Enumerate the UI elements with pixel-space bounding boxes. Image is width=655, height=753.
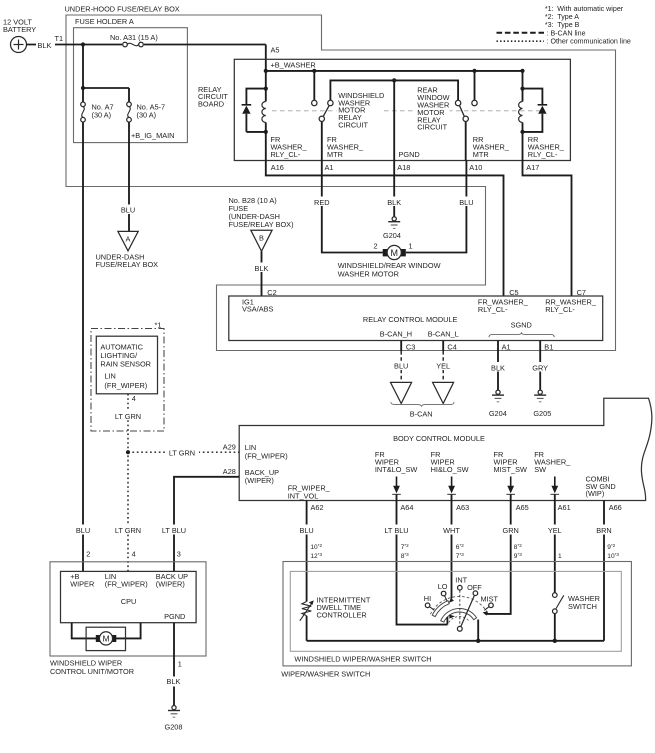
svg-text:PGND: PGND [399, 150, 420, 159]
svg-text:M: M [390, 248, 398, 258]
wire PGND (A18) [393, 80, 395, 160]
svg-text:WHT: WHT [443, 526, 460, 535]
B-CAN connector triangle (C4) [433, 382, 454, 403]
CPU box [61, 571, 197, 622]
node diode bottom RR [520, 130, 524, 134]
svg-text:GRN: GRN [503, 526, 519, 535]
svg-text:9*3: 9*3 [514, 552, 522, 560]
svg-text:9*2: 9*2 [607, 543, 615, 551]
svg-text:: B-CAN line: : B-CAN line [547, 29, 586, 37]
node on main feed [81, 42, 85, 46]
wire B1 to G205 (GRY) [530, 341, 552, 391]
node diode top FR [264, 87, 268, 91]
svg-text:(30 A): (30 A) [137, 110, 157, 119]
fuse No. A7 (30 A) [81, 102, 114, 122]
svg-text:10*3: 10*3 [607, 552, 619, 560]
svg-text:(30 A): (30 A) [92, 110, 112, 119]
svg-text:LT GRN: LT GRN [115, 412, 141, 421]
fuse No. A5-7 (30 A) [127, 102, 175, 140]
svg-text:(WIPER): (WIPER) [245, 476, 274, 485]
wire A10 to washer motor (BLU) [406, 161, 477, 253]
relay board internal labels [271, 86, 565, 159]
svg-text:BLK: BLK [167, 677, 181, 686]
INT dashed link [459, 590, 461, 626]
svg-text:7*2: 7*2 [401, 543, 409, 551]
relay board pin labels [271, 163, 540, 172]
B-CAN brace [391, 402, 454, 418]
wire LIN branch to BCM A29 (LT GRN, dotted) [128, 442, 239, 457]
fuse No. A31 (15 A) [110, 33, 158, 49]
svg-text:G208: G208 [165, 722, 183, 731]
wire A66 (BRN) to switch ground bus [594, 501, 620, 641]
svg-text:No. A31 (15 A): No. A31 (15 A) [110, 33, 158, 42]
under-hood fuse/relay box [65, 5, 616, 351]
contact ticks [430, 607, 435, 611]
svg-text:WINDSHIELD WIPER/WASHER SWITCH: WINDSHIELD WIPER/WASHER SWITCH [294, 655, 431, 664]
svg-text:WIPER/WASHER SWITCH: WIPER/WASHER SWITCH [281, 669, 370, 678]
svg-text:8*2: 8*2 [514, 543, 522, 551]
ground G204 (motor) [383, 217, 401, 241]
svg-text:B1: B1 [544, 342, 553, 351]
svg-text:G204: G204 [383, 231, 401, 240]
wire fuse A5-7 to under-dash box (BLU) [118, 122, 139, 231]
wire A18 to G204 (BLK) [384, 161, 405, 217]
BCM pin A28 wire to wiper unit pin 3 (LT BLU) [174, 467, 239, 571]
ground G208 [165, 706, 183, 732]
relay coil RR washer [519, 71, 523, 161]
svg-text:C3: C3 [406, 342, 415, 351]
relay circuit board box [198, 59, 570, 160]
node bus/FR contact [312, 69, 316, 73]
svg-text:CIRCUIT: CIRCUIT [338, 121, 368, 130]
svg-text:+B_IG_MAIN: +B_IG_MAIN [131, 131, 174, 140]
svg-text:With automatic wiper: With automatic wiper [557, 5, 623, 13]
wire A1 to washer motor (RED) [311, 161, 383, 253]
svg-text:A18: A18 [397, 163, 410, 172]
svg-text:A: A [126, 235, 131, 244]
svg-text:A29: A29 [223, 442, 236, 451]
relay module bottom pin labels [406, 342, 553, 351]
svg-text:1: 1 [408, 242, 412, 251]
svg-text:VSA/ABS: VSA/ABS [242, 305, 274, 314]
wire band to bus [477, 620, 479, 641]
svg-text:B: B [259, 233, 264, 242]
connector triangle A (to under-dash fuse/relay box) [96, 231, 159, 269]
wire PGND to G208 (BLK) [164, 623, 185, 706]
svg-text:SGND: SGND [511, 320, 532, 329]
automatic lighting/rain sensor (with automatic wiper) [91, 321, 164, 431]
svg-text:B-CAN_L: B-CAN_L [428, 329, 459, 338]
svg-text:MTR: MTR [327, 150, 343, 159]
svg-text:INT&LO_SW: INT&LO_SW [375, 465, 418, 474]
svg-text:GRY: GRY [532, 364, 548, 373]
ground G205 [533, 390, 551, 418]
wire battery to fuse box (BLK) [27, 34, 266, 50]
svg-text:: Other communication line: : Other communication line [547, 38, 631, 46]
diode RR (clamp) [523, 89, 548, 132]
wire A16 to C5 [266, 161, 504, 297]
svg-text:A64: A64 [400, 503, 413, 512]
svg-text:RLY_CL-: RLY_CL- [528, 150, 558, 159]
relay contact FR washer motor [312, 71, 459, 161]
svg-text:BLK: BLK [38, 41, 52, 50]
B-CAN connector triangle (C3) [391, 382, 412, 403]
svg-text:UNDER-HOOD FUSE/RELAY BOX: UNDER-HOOD FUSE/RELAY BOX [65, 5, 180, 14]
svg-text:4: 4 [132, 550, 136, 559]
wire A65 (GRN) [487, 494, 522, 614]
svg-text:T1: T1 [55, 34, 64, 43]
svg-text:YEL: YEL [436, 361, 450, 370]
wire C4 B-CAN (YEL, dashed) [433, 341, 455, 383]
svg-text:BLK: BLK [491, 364, 505, 373]
wiper unit pin numbers [86, 550, 181, 559]
svg-text:BLU: BLU [121, 206, 135, 215]
svg-text:1: 1 [558, 553, 562, 560]
svg-text:INT: INT [455, 575, 467, 584]
svg-text:FUSE HOLDER A: FUSE HOLDER A [75, 17, 134, 26]
svg-text:8*3: 8*3 [401, 552, 409, 560]
wire rain sensor LIN (LT GRN, dotted) [111, 394, 145, 572]
diode FR (clamp) [242, 89, 266, 132]
small dashed arc [449, 617, 470, 623]
windshield/rear window washer motor [338, 242, 441, 279]
svg-text:LT GRN: LT GRN [115, 526, 141, 535]
svg-text:LIN: LIN [104, 372, 115, 381]
wiper/washer switch outer box [281, 562, 631, 679]
svg-text:YEL: YEL [548, 526, 562, 535]
svg-text:BLU: BLU [299, 526, 313, 535]
svg-text:BLU: BLU [459, 198, 473, 207]
svg-text:2: 2 [86, 550, 90, 559]
svg-text:12*3: 12*3 [310, 552, 322, 560]
fuse holder A box [74, 17, 188, 143]
svg-text:BRN: BRN [596, 526, 612, 535]
node at fuse branch [81, 86, 85, 90]
svg-text:A65: A65 [516, 503, 529, 512]
svg-text:CONTROL UNIT/MOTOR: CONTROL UNIT/MOTOR [50, 667, 134, 676]
svg-text:CONTROLLER: CONTROLLER [317, 611, 367, 620]
svg-text:LO: LO [438, 582, 448, 591]
svg-text:(FR_WIPER): (FR_WIPER) [104, 381, 147, 390]
ground G204 [489, 390, 507, 418]
dashed selector arc [430, 596, 487, 614]
battery B1 (12 volt) [3, 17, 36, 52]
svg-text:M: M [102, 634, 109, 644]
svg-text:MIST: MIST [481, 594, 499, 603]
svg-text:RAIN SENSOR: RAIN SENSOR [100, 359, 151, 368]
svg-text:PGND: PGND [164, 612, 185, 621]
node LIN junction [126, 450, 130, 454]
svg-text:A28: A28 [223, 467, 236, 476]
wire labels into wiper unit [73, 525, 190, 536]
svg-text:LT GRN: LT GRN [169, 449, 195, 458]
svg-text:A16: A16 [271, 163, 284, 172]
svg-text:INT_VOL: INT_VOL [288, 491, 319, 500]
svg-text:(WIPER): (WIPER) [156, 580, 185, 589]
svg-text:A17: A17 [526, 163, 539, 172]
svg-text:MIST_SW: MIST_SW [494, 465, 528, 474]
mechanical link dashed line [272, 110, 541, 112]
node A5/bus [264, 69, 268, 73]
svg-text:G204: G204 [489, 409, 507, 418]
windshield wiper control unit/motor box [50, 562, 206, 676]
svg-text:A66: A66 [609, 503, 622, 512]
svg-text:A63: A63 [456, 503, 469, 512]
svg-text:7*3: 7*3 [456, 552, 464, 560]
svg-text:A10: A10 [469, 163, 482, 172]
BCM output arrows A64 A63 A65 A61 [392, 477, 559, 495]
svg-text:BATTERY: BATTERY [3, 25, 36, 34]
svg-text:BOARD: BOARD [198, 100, 224, 109]
svg-text:A1: A1 [502, 342, 511, 351]
inner contact band [441, 609, 477, 623]
svg-text:BLU: BLU [394, 361, 408, 370]
wire to fuses A7 / A5-7 [83, 45, 129, 103]
svg-text:BLK: BLK [255, 264, 269, 273]
svg-text:MTR: MTR [473, 150, 489, 159]
intermittent dwell time controller (variable resistor) [300, 595, 371, 640]
svg-text:RED: RED [314, 198, 330, 207]
wire C3 B-CAN (BLU, dashed) [391, 341, 413, 383]
svg-text:CPU: CPU [121, 597, 137, 606]
node PGND branch [392, 78, 396, 82]
svg-text:6*2: 6*2 [456, 543, 464, 551]
svg-text:*3:: *3: [545, 21, 554, 29]
wire B28 to C2 (BLK) [251, 251, 277, 296]
svg-text:Type B: Type B [557, 21, 579, 29]
LT BLU arrow to band [447, 615, 455, 625]
relay coil FR washer [262, 71, 266, 161]
svg-text:C4: C4 [447, 342, 456, 351]
svg-text:10*2: 10*2 [310, 543, 322, 551]
wiper rotary switch [424, 575, 499, 640]
svg-text:LT BLU: LT BLU [384, 526, 408, 535]
svg-text:BLK: BLK [387, 198, 401, 207]
svg-text:A62: A62 [311, 503, 324, 512]
svg-text:A1: A1 [325, 163, 334, 172]
wire A17 to C7 [523, 161, 572, 297]
node diode top RR [520, 87, 524, 91]
windshield wiper/washer switch box [290, 571, 621, 663]
svg-text:2: 2 [373, 242, 377, 251]
node diode bottom FR [264, 130, 268, 134]
svg-text:RLY_CL-: RLY_CL- [545, 305, 575, 314]
svg-text:(WIP): (WIP) [586, 489, 605, 498]
svg-text:A5: A5 [271, 46, 280, 55]
svg-text:(FR_WIPER): (FR_WIPER) [245, 451, 288, 460]
legend notes [497, 5, 631, 45]
wire A1 to G204 (BLK) [488, 341, 509, 391]
svg-text:A61: A61 [558, 503, 571, 512]
wire A62 (BLU) to dwell controller [296, 501, 323, 602]
svg-text:1: 1 [178, 660, 182, 669]
WHT arrow to LO contact [449, 598, 454, 603]
svg-text:(FR_WIPER): (FR_WIPER) [105, 580, 148, 589]
svg-text:BLU: BLU [76, 526, 90, 535]
svg-text:HI: HI [424, 594, 431, 603]
+B_WASHER bus [266, 61, 523, 71]
washer switch [553, 593, 600, 641]
wire A61 (YEL) [544, 494, 566, 592]
svg-text:RLY_CL-: RLY_CL- [271, 150, 301, 159]
svg-text:HI&LO_SW: HI&LO_SW [431, 465, 469, 474]
wire fuse A7 to wiper control unit (BLU) [82, 122, 84, 571]
switch ground bus [307, 640, 604, 642]
svg-text:RLY_CL-: RLY_CL- [478, 305, 508, 314]
svg-text:SW: SW [534, 465, 546, 474]
svg-text:3: 3 [177, 550, 181, 559]
svg-text:RELAY CONTROL MODULE: RELAY CONTROL MODULE [363, 315, 458, 324]
svg-text:WIPER: WIPER [70, 580, 94, 589]
node bus/RR contact [472, 69, 476, 73]
node bus/rotary [476, 639, 480, 643]
GRN arrow to MIST contact [483, 611, 488, 615]
fuse No. B28 note and triangle B (from under-dash fuse/relay box) [229, 196, 294, 251]
svg-text:WASHER MOTOR: WASHER MOTOR [338, 269, 399, 278]
svg-text:LT BLU: LT BLU [162, 526, 186, 535]
svg-text:SWITCH: SWITCH [568, 602, 597, 611]
svg-text:+B_WASHER: +B_WASHER [271, 61, 316, 70]
svg-text:FUSE/RELAY BOX): FUSE/RELAY BOX) [229, 220, 294, 229]
svg-text:BODY CONTROL MODULE: BODY CONTROL MODULE [393, 434, 485, 443]
wire A31 to A5 [266, 45, 280, 71]
wiper motor assembly [72, 623, 141, 651]
relay control module box [229, 296, 603, 341]
svg-text:FUSE/RELAY BOX: FUSE/RELAY BOX [96, 260, 159, 269]
svg-text:CIRCUIT: CIRCUIT [417, 123, 447, 132]
outer contact band [432, 601, 449, 617]
body control module box [239, 398, 652, 500]
svg-text:G205: G205 [533, 409, 551, 418]
relay contact RR washer motor [455, 71, 477, 161]
wire A63 (WHT) [440, 494, 464, 598]
node bus/RR coil [520, 69, 524, 73]
svg-text:B-CAN_H: B-CAN_H [380, 329, 412, 338]
contact circles [425, 603, 430, 608]
wire A64 (LT BLU) [381, 494, 447, 624]
switch arm to OFF [461, 595, 475, 626]
svg-text:*1:: *1: [545, 5, 554, 13]
svg-text:B-CAN: B-CAN [410, 409, 433, 418]
BCM bottom pin labels [311, 503, 622, 512]
svg-text:4: 4 [132, 394, 136, 403]
node bus/washer switch [553, 639, 557, 643]
BCM internal labels [245, 443, 616, 500]
